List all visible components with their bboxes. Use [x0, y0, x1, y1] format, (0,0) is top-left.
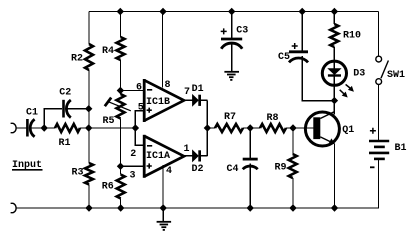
- junction C4 bottom rail: [247, 204, 254, 211]
- battery B1: [369, 128, 389, 168]
- wire R9 column: [292, 128, 294, 208]
- svg-text:4: 4: [166, 166, 172, 177]
- capacitor C4: [243, 159, 258, 169]
- svg-text:R2: R2: [71, 54, 83, 65]
- svg-text:R9: R9: [275, 163, 287, 174]
- diode D1: [193, 95, 201, 106]
- capacitor C5: [289, 52, 308, 63]
- node D1 D2 R7: [204, 124, 211, 131]
- LED D3: [322, 61, 354, 97]
- op-amp IC1B: [144, 79, 184, 122]
- wire C4 column: [249, 128, 251, 208]
- resistor R7: [215, 124, 243, 132]
- resistor R6: [117, 175, 125, 199]
- svg-text:R6: R6: [102, 182, 114, 193]
- wire node to pin 5: [135, 111, 143, 128]
- wire D1 to node: [201, 100, 207, 128]
- svg-text:SW1: SW1: [387, 70, 405, 81]
- svg-text:D3: D3: [353, 69, 365, 80]
- resistor R2: [85, 44, 93, 70]
- svg-text:R8: R8: [267, 113, 279, 124]
- resistor R4: [117, 37, 125, 60]
- wire input to C1: [16, 127, 26, 129]
- wire pin 1 to D2: [184, 155, 193, 157]
- node R1 R2 column: [85, 124, 92, 131]
- svg-text:Q1: Q1: [342, 125, 354, 136]
- junction emitter bottom rail: [331, 204, 338, 211]
- wire C3 column: [231, 12, 233, 72]
- junction R6 bottom rail: [117, 204, 124, 211]
- resistor R8: [260, 124, 286, 132]
- wire R7 to R8: [243, 127, 260, 129]
- capacitor C3: [221, 39, 242, 49]
- C5 polarity +: [292, 43, 298, 49]
- junction R4 top rail: [117, 8, 124, 15]
- svg-text:IC1A: IC1A: [146, 151, 170, 162]
- diode D2: [193, 150, 201, 161]
- svg-text:C1: C1: [26, 108, 38, 119]
- node B R5 R6 pin3: [117, 163, 124, 170]
- op-amp IC1A: [144, 135, 184, 178]
- capacitor C1: [27, 119, 34, 137]
- resistor R1: [55, 124, 80, 132]
- wire C2 branch left: [44, 109, 62, 128]
- transistor Q1: [305, 112, 339, 146]
- svg-text:R7: R7: [224, 112, 236, 123]
- wire pin 8 to rail: [162, 12, 164, 88]
- svg-text:1: 1: [184, 144, 190, 155]
- wire C2 branch right: [67, 108, 89, 110]
- resistor R3: [85, 163, 93, 185]
- wire Q1 emitter to rail: [334, 144, 336, 208]
- switch SW1: [376, 56, 389, 84]
- junction R9 bottom rail: [289, 204, 296, 211]
- wire C1 to R1: [31, 127, 55, 129]
- resistor R9: [289, 154, 297, 178]
- svg-text:6: 6: [136, 83, 142, 94]
- junction ground bottom rail: [160, 204, 167, 211]
- input connector (signal): [11, 123, 17, 132]
- node signal to pins 5 and 2: [132, 124, 139, 131]
- wire node to pin 2: [135, 128, 143, 145]
- svg-text:3: 3: [130, 171, 136, 182]
- trimmer R5 arrow: [105, 98, 131, 111]
- svg-text:5: 5: [138, 103, 144, 114]
- junction C3 top rail: [228, 8, 235, 15]
- resistor R10: [330, 24, 338, 47]
- svg-text:C3: C3: [236, 26, 248, 37]
- wire R7 left: [207, 127, 215, 129]
- node R8 R9 base: [289, 124, 296, 131]
- ground under C3: [224, 72, 239, 80]
- junction R3 bottom rail: [85, 204, 92, 211]
- wire C5 column: [302, 12, 334, 101]
- node R7 R8 C4: [247, 124, 254, 131]
- svg-text:R10: R10: [343, 31, 361, 42]
- ground bottom rail: [157, 222, 172, 230]
- node C1 C2 R1: [41, 124, 48, 131]
- junction C5 top rail: [299, 8, 306, 15]
- junction R10 top rail: [331, 8, 338, 15]
- svg-text:B1: B1: [395, 143, 407, 154]
- svg-text:C4: C4: [227, 164, 239, 175]
- wire R10 D3 column: [333, 12, 335, 115]
- wire left column R2: [88, 12, 90, 209]
- svg-text:R1: R1: [59, 138, 71, 149]
- C3 polarity +: [221, 28, 227, 34]
- wire R1 to node: [80, 127, 135, 129]
- wire SW1 to B1: [378, 85, 380, 141]
- capacitor C2: [64, 100, 71, 118]
- wire D2 to node: [201, 128, 207, 156]
- svg-text:C5: C5: [278, 52, 290, 63]
- trimmer R5: [117, 94, 125, 119]
- wire rail to SW1: [378, 12, 380, 57]
- wire pin 7 to D1: [184, 99, 193, 101]
- svg-text:R4: R4: [102, 46, 114, 57]
- wire Q1 base: [293, 127, 313, 129]
- svg-text:R5: R5: [103, 116, 115, 127]
- svg-text:2: 2: [130, 149, 136, 160]
- wire top supply rail: [89, 11, 379, 13]
- svg-text:C2: C2: [59, 88, 71, 99]
- wire pin 6: [120, 90, 142, 92]
- wire pin 3: [121, 165, 143, 167]
- input connector (ground): [11, 203, 17, 212]
- svg-text:D1: D1: [192, 84, 204, 95]
- svg-text:IC1B: IC1B: [146, 97, 170, 108]
- node C5 D3 collector: [331, 97, 338, 104]
- svg-text:R3: R3: [72, 168, 84, 179]
- node C2 right: [85, 105, 92, 112]
- Input underline: [12, 169, 43, 171]
- wire B1 to bottom rail: [16, 160, 379, 208]
- svg-text:D2: D2: [192, 164, 204, 175]
- junction pin8 top rail: [159, 8, 166, 15]
- svg-text:7: 7: [184, 87, 190, 98]
- wire R8 right: [286, 127, 293, 129]
- wire R4 R5 R6 column: [120, 12, 122, 209]
- node A R4 R5 pin6: [117, 87, 124, 94]
- svg-text:8: 8: [165, 80, 171, 91]
- wire pin 4 to ground: [162, 165, 164, 221]
